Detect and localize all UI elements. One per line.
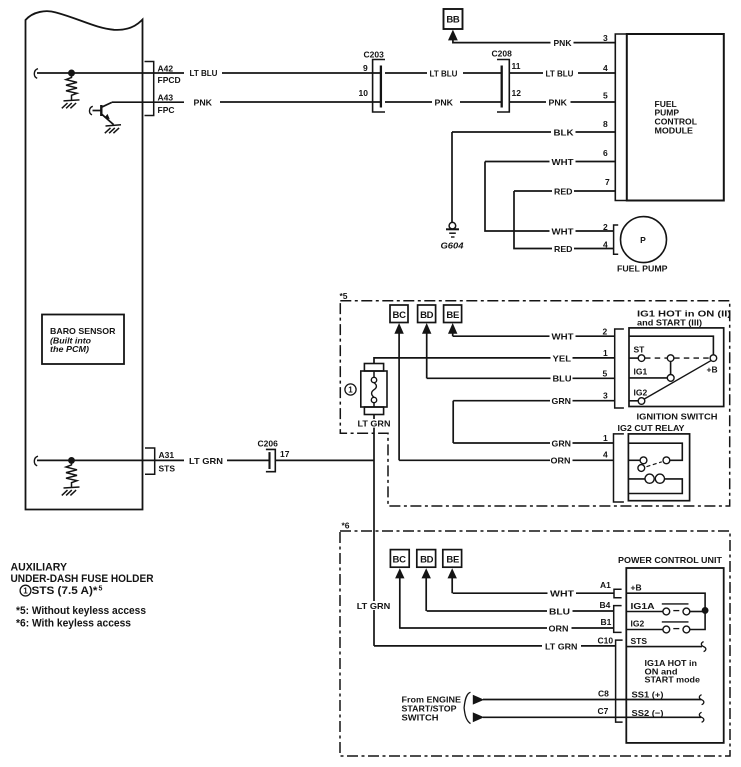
svg-text:*6: *6 xyxy=(342,520,350,530)
ignition switch contact mid xyxy=(667,355,674,362)
wire SS1 (PCU pin C8) xyxy=(483,699,701,701)
svg-text:5: 5 xyxy=(603,91,608,101)
svg-text:GRN: GRN xyxy=(552,396,572,406)
svg-text:BLK: BLK xyxy=(554,127,575,137)
wire WHT (ignition switch pin 2) xyxy=(453,332,615,342)
arrow into BC (*5) xyxy=(394,323,403,334)
svg-text:LT GRN: LT GRN xyxy=(357,601,391,611)
PCU internal: STS row with end hook xyxy=(626,642,706,652)
pin B4 (PCU) xyxy=(600,600,611,610)
connector bracket A42/A43 (PCM pins) xyxy=(145,62,154,116)
wire ORN riser to BC (*6) xyxy=(399,578,401,628)
pin label A42 / FPCD xyxy=(158,63,181,85)
wire LT GRN (fuse to STS row and power control unit C10) xyxy=(357,415,392,646)
pin 2 (fuel pump) xyxy=(603,222,608,232)
transistor Q (FPC driver, NPN) xyxy=(89,102,113,124)
connector BB (to other sheet) xyxy=(444,9,463,29)
svg-text:C8: C8 xyxy=(598,689,609,699)
BARO SENSOR box xyxy=(42,315,124,365)
module connector bracket xyxy=(615,34,627,201)
svg-text:6: 6 xyxy=(603,148,608,158)
wire YEL (ignition switch pin 1 to fuse) xyxy=(374,353,615,363)
FUEL PUMP CONTROL MODULE box xyxy=(627,34,724,201)
svg-text:4: 4 xyxy=(603,63,608,73)
svg-text:11: 11 xyxy=(512,61,521,71)
svg-text:4: 4 xyxy=(603,239,608,249)
wire LT GRN (PCU pin C10) xyxy=(374,641,616,651)
wire ORN (PCU pin B1) xyxy=(399,623,614,633)
svg-text:YEL: YEL xyxy=(553,353,572,363)
pin 3 (module) xyxy=(603,33,608,43)
connector BD (*5) xyxy=(418,305,436,323)
IG2 cut relay contact circles xyxy=(638,457,670,472)
wire label LT BLU (A42) xyxy=(190,68,218,78)
svg-text:BLU: BLU xyxy=(553,374,572,384)
arrow into BE (*6) xyxy=(448,568,457,578)
svg-text:UNDER-DASH FUSE HOLDER: UNDER-DASH FUSE HOLDER xyxy=(11,573,154,585)
pin label A31 / STS xyxy=(159,450,176,474)
wire BLU (ignition switch pin 5) xyxy=(427,374,615,384)
svg-text:IG2: IG2 xyxy=(634,388,648,398)
svg-text:ST: ST xyxy=(634,344,646,354)
PCU internal: SS1 row end hook xyxy=(699,695,704,705)
svg-text:PNK: PNK xyxy=(549,97,568,107)
ignition switch internal: BLU stub to IG1 xyxy=(629,377,667,379)
label LT GRN (riser, *6) xyxy=(356,601,392,611)
svg-text:POWER CONTROL UNIT: POWER CONTROL UNIT xyxy=(618,555,723,565)
PCU internal: +B feed xyxy=(626,593,705,608)
svg-text:C10: C10 xyxy=(598,635,614,645)
svg-text:17: 17 xyxy=(280,449,290,459)
connector C203 xyxy=(359,50,386,113)
label circled-1 (fuse) xyxy=(345,384,356,395)
svg-text:1: 1 xyxy=(23,587,28,596)
svg-text:+B: +B xyxy=(631,583,642,593)
svg-text:1: 1 xyxy=(348,386,353,395)
svg-text:5: 5 xyxy=(603,369,608,379)
PCU internal: IG1A row xyxy=(626,604,705,615)
pin A1 (PCU) xyxy=(600,580,611,590)
wire BLU riser to BD (*5) xyxy=(426,333,428,378)
wire PNK (C208 to module pin 5) xyxy=(509,97,615,107)
resistor (STS circuit) xyxy=(66,463,77,487)
svg-text:1: 1 xyxy=(603,433,608,443)
PCU pin bracket C10/C8/C7 xyxy=(616,640,623,722)
svg-text:GRN: GRN xyxy=(552,438,572,448)
svg-text:WHT: WHT xyxy=(552,157,575,167)
wire PNK (C203 to C208) xyxy=(385,97,501,107)
svg-text:the PCM): the PCM) xyxy=(50,344,89,354)
wire label LT GRN (A31) xyxy=(189,456,223,466)
svg-text:SS1 (+): SS1 (+) xyxy=(632,689,664,699)
IG2 cut relay internal: pin1 feed xyxy=(628,443,682,460)
node: junction dot on A31 wire xyxy=(69,458,74,463)
ignition switch contact IG1 xyxy=(667,375,674,382)
pin 4 (IG2 cut relay) xyxy=(603,450,608,460)
resistor (baro sensor circuit) xyxy=(66,76,77,101)
pin 1 (ignition switch) xyxy=(603,348,608,358)
svg-text:LT GRN: LT GRN xyxy=(189,456,223,466)
footer: note *6 xyxy=(16,618,131,630)
PCM box (torn-edge outline) xyxy=(26,11,143,509)
svg-text:BC: BC xyxy=(393,555,407,566)
POWER CONTROL UNIT box xyxy=(626,568,723,743)
svg-text:BLU: BLU xyxy=(549,606,570,616)
arrow into BE (*5) xyxy=(448,323,457,334)
svg-text:IG1A: IG1A xyxy=(631,601,655,611)
svg-text:SWITCH: SWITCH xyxy=(402,713,439,723)
svg-text:2: 2 xyxy=(603,327,608,337)
svg-text:BD: BD xyxy=(420,310,434,321)
pin C8 (PCU) xyxy=(598,689,609,699)
svg-text:and START (III): and START (III) xyxy=(637,318,702,328)
svg-text:PNK: PNK xyxy=(194,97,213,107)
connector C206 xyxy=(258,438,290,471)
svg-text:START mode: START mode xyxy=(645,675,701,685)
arrow into BC (*6) xyxy=(395,568,404,578)
svg-text:LT BLU: LT BLU xyxy=(190,68,218,78)
svg-text:RED: RED xyxy=(554,244,573,254)
ignition switch internal: IG2 to +B diagonal xyxy=(644,361,711,399)
svg-text:A42: A42 xyxy=(158,63,174,73)
pin B1 (PCU) xyxy=(601,617,612,627)
pin 2 (ignition switch) xyxy=(603,327,608,337)
footer: note *5 xyxy=(16,605,146,617)
footer: fuse 1 STS (7.5 A) xyxy=(20,585,102,597)
svg-text:STS: STS xyxy=(159,463,176,473)
svg-text:PNK: PNK xyxy=(435,97,454,107)
ignition switch internal: YEL stub to ST xyxy=(629,357,638,359)
svg-text:10: 10 xyxy=(359,88,369,98)
svg-text:12: 12 xyxy=(512,88,522,98)
wire WHT (PCU pin A1) xyxy=(453,589,615,599)
svg-text:C208: C208 xyxy=(492,49,513,59)
pin 6 (module) xyxy=(603,148,608,158)
svg-text:7: 7 xyxy=(605,177,610,187)
wire SS2 (PCU pin C7) xyxy=(483,716,701,718)
pin 4 (module) xyxy=(603,63,608,73)
svg-text:C206: C206 xyxy=(258,438,279,448)
svg-text:3: 3 xyxy=(603,390,608,400)
arrow from engine start/stop switch (SS1) xyxy=(473,695,484,705)
connector bracket A31 (PCM pin) xyxy=(145,448,155,474)
svg-text:AUXILIARY: AUXILIARY xyxy=(11,562,68,574)
svg-text:LT GRN: LT GRN xyxy=(545,641,578,651)
svg-text:FPC: FPC xyxy=(158,105,175,115)
wire BLU (PCU pin B4) xyxy=(427,606,614,616)
svg-text:RED: RED xyxy=(554,186,573,196)
wire GRN link (pin 3 down to relay pin 1) xyxy=(452,401,454,443)
wire WHT (to fuel pump pin 2) xyxy=(485,162,613,237)
PCU pin bracket B4/B1 xyxy=(614,606,622,633)
ignition switch box xyxy=(629,328,724,407)
PCU pin bracket A1 xyxy=(614,589,622,598)
svg-text:P: P xyxy=(640,235,646,245)
svg-text:2: 2 xyxy=(603,222,608,232)
connector BD (*6) xyxy=(417,550,436,568)
ground G604 xyxy=(441,222,464,250)
svg-text:BD: BD xyxy=(420,555,434,566)
svg-text:LT BLU: LT BLU xyxy=(546,68,574,78)
PCU internal: IG2 row xyxy=(626,613,705,633)
pin C10 (PCU) xyxy=(598,635,614,645)
svg-text:BE: BE xyxy=(446,310,459,321)
connector BC (*6) xyxy=(390,550,409,568)
wire LT BLU (C208 to module pin 4) xyxy=(509,68,615,78)
fuel pump motor xyxy=(617,217,668,274)
IG2 cut relay box xyxy=(628,434,689,501)
label POWER CONTROL UNIT xyxy=(618,555,723,565)
wire GRN (IG2 cut relay pin 1) xyxy=(453,438,613,448)
svg-text:C203: C203 xyxy=(364,50,385,60)
pin 8 (module) xyxy=(603,119,608,129)
svg-text:*6: With keyless access: *6: With keyless access xyxy=(16,618,131,630)
svg-text:BC: BC xyxy=(393,310,407,321)
svg-text:WHT: WHT xyxy=(550,589,575,599)
svg-text:LT GRN: LT GRN xyxy=(358,418,391,428)
svg-text:C7: C7 xyxy=(598,706,609,716)
label IG2 CUT RELAY xyxy=(618,423,685,433)
svg-text:ORN: ORN xyxy=(549,623,569,633)
svg-text:LT BLU: LT BLU xyxy=(430,68,458,78)
svg-text:5: 5 xyxy=(99,585,103,592)
wire BLU riser to BD (*6) xyxy=(425,578,427,611)
svg-text:B4: B4 xyxy=(600,600,611,610)
wire A31 STS (LT GRN) xyxy=(34,456,374,466)
ignition switch internal: ST dashed line xyxy=(645,357,710,359)
IG2 cut relay connector bracket xyxy=(614,434,624,502)
ignition switch internal: rotor link mid to IG1 xyxy=(670,361,672,374)
svg-text:9: 9 xyxy=(363,63,368,73)
svg-text:8: 8 xyxy=(603,119,608,129)
svg-text:STS (7.5 A)*: STS (7.5 A)* xyxy=(32,585,99,597)
node: PCU +B junction dot xyxy=(703,608,708,613)
PCU internal: SS2 row end hook xyxy=(699,712,704,722)
svg-text:*5: *5 xyxy=(340,291,348,301)
svg-text:A1: A1 xyxy=(600,580,611,590)
fuel pump connector bracket xyxy=(614,225,619,254)
svg-text:BB: BB xyxy=(446,15,460,26)
ground (resistor) xyxy=(62,100,80,108)
ground (transistor emitter) xyxy=(105,125,121,134)
pin 5 (module) xyxy=(603,91,608,101)
fuse 1 STS 7.5A xyxy=(361,364,387,415)
ignition switch contact +B xyxy=(710,355,717,362)
arrow into BD (*6) xyxy=(422,568,431,578)
label From ENGINE START/STOP SWITCH xyxy=(402,695,462,723)
svg-text:+B: +B xyxy=(707,364,718,374)
svg-text:A43: A43 xyxy=(158,93,174,103)
footer: AUXILIARY UNDER-DASH FUSE HOLDER xyxy=(11,562,154,585)
connector BC (*5) xyxy=(390,305,408,323)
wire RED (to fuel pump pin 4) xyxy=(514,191,613,254)
dashed box *5 (without keyless access) xyxy=(340,291,730,506)
ignition switch contact IG2 xyxy=(638,398,645,405)
svg-text:4: 4 xyxy=(603,450,608,460)
wire ORN riser to BC (*5) xyxy=(398,333,400,460)
svg-text:STS: STS xyxy=(631,636,648,646)
dashed box *6 (with keyless access) xyxy=(340,520,730,756)
svg-text:BE: BE xyxy=(446,555,459,566)
svg-text:B1: B1 xyxy=(601,617,612,627)
wire BLK (module pin 8 to G604) xyxy=(452,127,615,222)
svg-text:IGNITION SWITCH: IGNITION SWITCH xyxy=(637,412,718,422)
node: junction dot on A42 wire xyxy=(69,70,74,75)
wire A42 FPCD (LT BLU) left segment xyxy=(34,69,380,79)
pin 4 (fuel pump) xyxy=(603,239,608,249)
pin label A43 / FPC xyxy=(158,93,175,115)
ignition switch internal: +B feed from pin 2 xyxy=(629,336,713,355)
IG2 cut relay coil xyxy=(628,474,682,493)
svg-text:FPCD: FPCD xyxy=(158,75,181,85)
svg-text:A31: A31 xyxy=(159,450,175,460)
wire LT BLU (C203 to C208) xyxy=(385,68,501,78)
wire A43 FPC (PNK) xyxy=(112,101,380,103)
svg-text:IG1: IG1 xyxy=(634,366,648,376)
wire WHT riser to BE (*6) xyxy=(451,578,453,593)
wire WHT (module pin 6) xyxy=(485,157,615,167)
pin 1 (IG2 cut relay) xyxy=(603,433,608,443)
pin C7 (PCU) xyxy=(598,706,609,716)
ignition switch internal: GRN stub to IG2 xyxy=(629,400,638,402)
pin 5 (ignition switch) xyxy=(603,369,608,379)
ground (STS resistor) xyxy=(62,487,80,495)
IG2 cut relay internal: pin4 stub xyxy=(628,459,640,461)
ignition switch heading xyxy=(637,308,731,327)
svg-text:WHT: WHT xyxy=(552,332,575,342)
connector BE (*5) xyxy=(444,305,462,323)
svg-text:FUEL PUMP: FUEL PUMP xyxy=(617,263,668,273)
brace (engine start/stop switch) xyxy=(464,692,470,723)
wire PNK (module pin 3 to BB) xyxy=(453,38,615,48)
svg-text:G604: G604 xyxy=(441,240,464,250)
wire WHT riser to BE (*5) xyxy=(452,333,454,336)
svg-text:IG2: IG2 xyxy=(631,619,645,629)
ignition switch connector bracket xyxy=(615,329,624,408)
wire GRN (ignition switch pin 3) xyxy=(453,396,615,406)
wire RED (module pin 7) xyxy=(514,186,615,196)
label IGNITION SWITCH xyxy=(637,412,718,422)
arrow into BD (*5) xyxy=(422,323,431,334)
connector BE (*6) xyxy=(443,550,462,568)
svg-text:3: 3 xyxy=(603,33,608,43)
arrow into BB xyxy=(448,30,458,41)
connector C208 xyxy=(492,49,522,113)
pin 3 (ignition switch) xyxy=(603,390,608,400)
svg-text:*5: Without keyless access: *5: Without keyless access xyxy=(16,605,146,617)
svg-text:1: 1 xyxy=(603,348,608,358)
svg-text:IG2 CUT RELAY: IG2 CUT RELAY xyxy=(618,423,685,433)
svg-text:BARO SENSOR: BARO SENSOR xyxy=(50,326,116,336)
ignition switch contact ST xyxy=(638,355,645,362)
svg-text:WHT: WHT xyxy=(552,226,575,236)
pin 7 (module) xyxy=(605,177,610,187)
wire label PNK (A43) xyxy=(194,97,213,107)
svg-text:ORN: ORN xyxy=(551,456,571,466)
wire ORN (IG2 cut relay pin 4) xyxy=(399,456,613,466)
svg-text:PNK: PNK xyxy=(554,38,573,48)
svg-text:SS2 (−): SS2 (−) xyxy=(632,708,664,718)
arrow from engine start/stop switch (SS2) xyxy=(473,712,484,722)
svg-text:MODULE: MODULE xyxy=(655,125,694,135)
